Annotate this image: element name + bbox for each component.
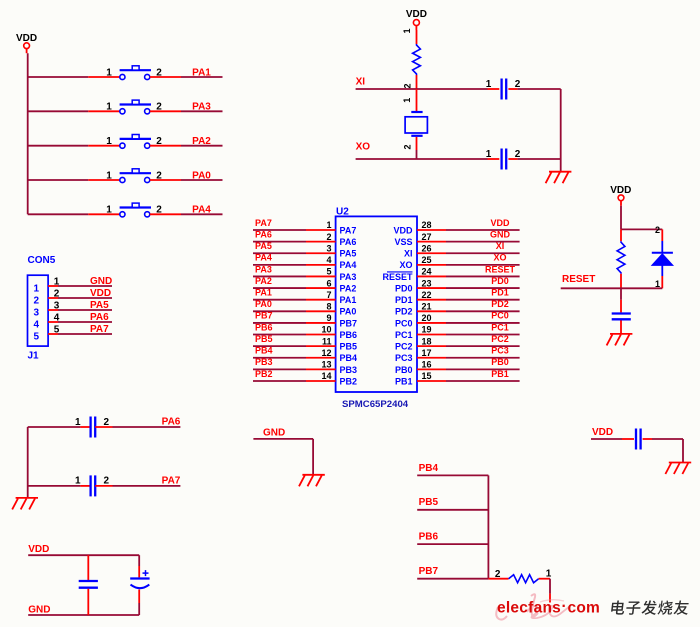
wire button row 4 right [181, 179, 223, 181]
capacitor C2 pin 2 [508, 158, 517, 160]
svg-text:GND: GND [263, 427, 285, 438]
svg-text:PB2: PB2 [255, 369, 273, 379]
wire button row 2 right [181, 110, 223, 112]
capacitor C7 pin 2 [95, 426, 112, 428]
svg-text:4: 4 [34, 320, 40, 331]
wire button row 3 left [28, 145, 89, 147]
svg-text:PB7: PB7 [419, 566, 439, 577]
pushbutton S4 [120, 169, 151, 183]
connector J1 body [28, 275, 49, 346]
U2 pin 4 [306, 264, 336, 266]
wire button row 4 left [28, 179, 89, 181]
diode D1 pin 2 [661, 229, 663, 241]
wire PA6 cap row left [28, 426, 81, 428]
wire U2 pin 26 net [446, 252, 520, 254]
U2 pin 22 [417, 299, 446, 301]
wire U2 pin 18 net [446, 345, 520, 347]
svg-text:SPMC65P2404: SPMC65P2404 [342, 399, 409, 410]
capacitor C3 pin 1 [87, 555, 89, 580]
pushbutton S2 pin 2 [150, 110, 181, 112]
svg-text:PD1: PD1 [395, 295, 413, 305]
svg-text:J1: J1 [28, 351, 40, 362]
svg-text:PC3: PC3 [395, 353, 413, 363]
svg-text:PA6: PA6 [162, 416, 181, 427]
U2 pin 10 [306, 334, 336, 336]
resistor R2 pin 1 [620, 274, 622, 289]
power port VDD (reset) [610, 185, 631, 206]
U2 pin 21 [417, 310, 446, 312]
svg-text:VDD: VDD [28, 544, 49, 555]
capacitor C7 [91, 417, 96, 438]
svg-text:PB4: PB4 [340, 353, 358, 363]
U2 pin 28 [417, 229, 446, 231]
svg-text:1: 1 [486, 79, 492, 90]
svg-text:2: 2 [495, 569, 501, 580]
pushbutton S2 pin 1 [88, 110, 119, 112]
wire U2 pin 11 net [253, 345, 306, 347]
svg-text:PA0: PA0 [340, 307, 357, 317]
pushbutton S5 [120, 203, 151, 217]
svg-text:GND: GND [490, 229, 511, 239]
svg-text:PB3: PB3 [255, 357, 273, 367]
svg-text:PA4: PA4 [340, 260, 357, 270]
svg-text:RESET: RESET [485, 264, 516, 274]
svg-text:GND: GND [90, 276, 112, 287]
svg-text:11: 11 [322, 336, 332, 346]
U2 pin 7 [306, 299, 336, 301]
wire rail corner to C4 [138, 555, 140, 566]
svg-text:17: 17 [422, 348, 432, 358]
wire button row 2 left [28, 110, 89, 112]
U2 pin 6 [306, 287, 336, 289]
diode D1 [652, 241, 673, 276]
pushbutton S1 pin 2 [150, 76, 181, 78]
svg-text:CON5: CON5 [28, 255, 56, 266]
U2 pin 23 [417, 287, 446, 289]
wire crystal to XO [416, 150, 418, 159]
svg-text:VDD: VDD [90, 288, 111, 299]
svg-text:PA5: PA5 [90, 300, 109, 311]
svg-text:2: 2 [104, 476, 110, 487]
svg-text:PB0: PB0 [491, 357, 509, 367]
svg-text:RESET: RESET [382, 272, 413, 282]
svg-text:1: 1 [106, 170, 112, 181]
svg-text:VSS: VSS [394, 237, 412, 247]
pushbutton S3 pin 2 [150, 145, 181, 147]
svg-text:XI: XI [356, 76, 366, 87]
svg-text:1: 1 [326, 220, 331, 230]
wire U2 pin 28 net [446, 229, 520, 231]
wire U2 pin 24 net [446, 275, 520, 277]
svg-text:PC2: PC2 [395, 342, 413, 352]
svg-text:PA5: PA5 [340, 249, 357, 259]
power port VDD (button bank) [16, 33, 37, 53]
capacitor C5 [612, 314, 631, 320]
wire U2 pin 13 net [253, 368, 306, 370]
svg-text:PC1: PC1 [491, 322, 509, 332]
wire U2 pin 22 net [446, 299, 520, 301]
wire VDD vertical bus [27, 53, 29, 214]
svg-text:1: 1 [106, 102, 112, 113]
svg-text:PB6: PB6 [340, 330, 358, 340]
ground (crystal) [546, 172, 572, 184]
svg-text:4: 4 [326, 255, 331, 265]
U2 pin 15 [417, 380, 446, 382]
resistor R1 pin 1 [416, 30, 418, 44]
svg-text:1: 1 [402, 28, 412, 33]
U2 pin 17 [417, 357, 446, 359]
svg-text:XI: XI [404, 249, 413, 259]
connector J1 pin 4 [48, 321, 58, 323]
svg-text:PA3: PA3 [192, 102, 211, 113]
wire button row 5 right [181, 213, 223, 215]
svg-text:XO: XO [399, 260, 412, 270]
svg-text:5: 5 [34, 332, 40, 343]
U2 pin 25 [417, 264, 446, 266]
capacitor C2 pin 1 [488, 158, 500, 160]
U2 pin 3 [306, 252, 336, 254]
diode D1 pin 1 [661, 276, 663, 288]
svg-text:7: 7 [326, 290, 331, 300]
svg-text:PB6: PB6 [419, 532, 439, 543]
U2 pin 26 [417, 252, 446, 254]
wire J1 pin 3 net [58, 309, 112, 311]
capacitor C6 pin 2 [643, 438, 652, 440]
capacitor C1 pin 2 [508, 88, 517, 90]
svg-text:2: 2 [34, 296, 40, 307]
svg-text:PA6: PA6 [90, 312, 109, 323]
wire J1 pin 4 net [58, 321, 112, 323]
U2 pin 16 [417, 368, 446, 370]
svg-text:PB0: PB0 [395, 365, 413, 375]
wire right vertical to ground [560, 89, 562, 172]
wire junction to capacitor [620, 288, 622, 300]
svg-text:PA7: PA7 [340, 225, 357, 235]
svg-text:1: 1 [546, 568, 552, 579]
svg-text:VDD: VDD [406, 9, 427, 20]
wire U2 pin 8 net [253, 310, 306, 312]
wire VDD to cap [591, 438, 622, 440]
crystal Y1 pin 1 [416, 89, 418, 111]
wire U2 pin 25 net [446, 264, 520, 266]
svg-text:PB5: PB5 [419, 497, 439, 508]
svg-text:PC0: PC0 [491, 311, 509, 321]
svg-text:PA1: PA1 [192, 67, 211, 78]
capacitor C8 pin 1 [80, 485, 90, 487]
svg-text:PA1: PA1 [340, 295, 357, 305]
U2 pin 2 [306, 241, 336, 243]
svg-text:2: 2 [104, 417, 110, 428]
pushbutton S1 pin 1 [88, 76, 119, 78]
svg-text:12: 12 [321, 348, 331, 358]
svg-text:PA5: PA5 [255, 241, 272, 251]
wire J1 pin 5 net [58, 333, 112, 335]
svg-text:PB1: PB1 [491, 369, 509, 379]
wire cap to ground corner [652, 439, 683, 462]
capacitor C4 pin + [138, 566, 140, 577]
capacitor C6 [636, 429, 641, 450]
svg-text:1: 1 [75, 476, 81, 487]
U2 pin 12 [306, 357, 336, 359]
wire J1 pin 2 net [58, 297, 112, 299]
wire GND net [253, 439, 313, 474]
svg-text:XI: XI [496, 241, 505, 251]
svg-text:3: 3 [34, 308, 40, 319]
wire VDD to junction [620, 206, 622, 230]
svg-text:10: 10 [321, 325, 331, 335]
wire U2 pin 6 net [253, 287, 306, 289]
wire U2 pin 20 net [446, 322, 520, 324]
wire VDD rail [28, 554, 139, 556]
ground (decoupling cap) [665, 463, 691, 475]
wire button row 1 left [28, 76, 89, 78]
wire button row 1 right [181, 76, 223, 78]
capacitor C1 pin 1 [488, 88, 500, 90]
capacitor C6 pin 1 [622, 438, 634, 440]
wire XO net [356, 158, 561, 160]
svg-text:6: 6 [326, 278, 331, 288]
svg-text:27: 27 [422, 232, 432, 242]
svg-text:8: 8 [326, 302, 331, 312]
svg-text:PD0: PD0 [395, 283, 413, 293]
svg-text:PB6: PB6 [255, 322, 273, 332]
svg-text:5: 5 [326, 267, 331, 277]
capacitor C5 pin 1 [620, 300, 622, 313]
svg-text:2: 2 [655, 225, 660, 235]
resistor R2 [617, 241, 625, 274]
wire XI net [356, 88, 561, 90]
svg-text:PD2: PD2 [395, 307, 413, 317]
connector J1 pin 5 [48, 333, 58, 335]
svg-text:16: 16 [422, 360, 432, 370]
wire PB4 net [417, 474, 488, 476]
IC U2 body [336, 216, 417, 392]
svg-text:21: 21 [422, 302, 432, 312]
svg-text:PD1: PD1 [491, 287, 509, 297]
svg-text:PB2: PB2 [340, 376, 358, 386]
svg-text:PA1: PA1 [255, 287, 272, 297]
wire U2 pin 10 net [253, 334, 306, 336]
wire junction to diode top [621, 228, 662, 230]
svg-text:26: 26 [422, 243, 432, 253]
wire PB6 net [417, 543, 488, 545]
wire U2 pin 3 net [253, 252, 306, 254]
wire R3 down [549, 579, 551, 594]
connector J1 pin 3 [48, 309, 58, 311]
svg-text:PA0: PA0 [255, 299, 272, 309]
wire R3 end stub [549, 594, 551, 603]
svg-text:PA2: PA2 [192, 136, 211, 147]
svg-text:1: 1 [106, 67, 112, 78]
pushbutton S5 pin 2 [150, 213, 181, 215]
wire U2 pin 17 net [446, 357, 520, 359]
resistor R3 pin 1 [539, 578, 550, 580]
watermark chinese 电子发烧友 [611, 600, 690, 614]
svg-text:PA7: PA7 [90, 324, 109, 335]
power port VDD (crystal) [406, 9, 427, 30]
pushbutton S4 pin 2 [150, 179, 181, 181]
svg-text:XO: XO [356, 141, 371, 152]
crystal Y1 [405, 112, 427, 136]
wire U2 pin 7 net [253, 299, 306, 301]
pushbutton S3 [120, 135, 151, 149]
U2 pin 9 [306, 322, 336, 324]
U2 pin 27 [417, 241, 446, 243]
svg-text:24: 24 [422, 267, 432, 277]
capacitor C8 pin 2 [95, 485, 112, 487]
wire U2 pin 23 net [446, 287, 520, 289]
wire U2 pin 2 net [253, 241, 306, 243]
svg-text:1: 1 [75, 417, 81, 428]
svg-text:15: 15 [422, 371, 432, 381]
wire J1 pin 1 net [58, 285, 112, 287]
capacitor C8 [91, 475, 96, 496]
capacitor C3 [79, 581, 98, 588]
capacitor C4 (electrolytic) [130, 570, 149, 588]
U2 pin 20 [417, 322, 446, 324]
connector J1 pin 1 [48, 285, 58, 287]
wire U2 pin 1 net [253, 229, 306, 231]
wire left vertical (PA6/PA7 caps) [27, 427, 29, 498]
svg-text:1: 1 [106, 136, 112, 147]
wire PB7 net [417, 578, 488, 580]
svg-text:2: 2 [403, 83, 413, 88]
svg-text:1: 1 [486, 149, 492, 160]
svg-text:PB7: PB7 [255, 311, 273, 321]
wire RESET net [561, 287, 663, 289]
resistor R3 pin 2 [488, 578, 508, 580]
svg-text:1: 1 [106, 205, 112, 216]
svg-text:14: 14 [321, 371, 331, 381]
wire button row 3 right [181, 145, 223, 147]
U2 pin 1 [306, 229, 336, 231]
ground (PA6/PA7 caps) [12, 498, 38, 510]
ground (center) [299, 475, 325, 487]
svg-text:PB7: PB7 [340, 318, 358, 328]
svg-text:PB4: PB4 [255, 346, 273, 356]
svg-text:20: 20 [422, 313, 432, 323]
resistor R1 [413, 44, 421, 75]
svg-text:XO: XO [493, 253, 506, 263]
svg-text:PA4: PA4 [192, 205, 211, 216]
svg-text:22: 22 [422, 290, 432, 300]
U2 pin 18 [417, 345, 446, 347]
pushbutton S5 pin 1 [88, 213, 119, 215]
capacitor C7 pin 1 [80, 426, 90, 428]
svg-text:VDD: VDD [393, 225, 413, 235]
wire PA6 cap row right [113, 426, 181, 428]
svg-text:RESET: RESET [562, 274, 595, 285]
svg-text:VDD: VDD [490, 218, 510, 228]
wire button row 5 left [28, 213, 89, 215]
capacitor C4 pin - [138, 590, 140, 604]
U2 pin 8 [306, 310, 336, 312]
wire GND rail [28, 614, 139, 616]
U2 pin 14 [306, 380, 336, 382]
svg-text:9: 9 [326, 313, 331, 323]
wire U2 pin 15 net [446, 380, 520, 382]
svg-text:VDD: VDD [592, 427, 613, 438]
capacitor C1 [502, 79, 507, 100]
resistor R2 pin 2 [620, 229, 622, 241]
svg-text:PC0: PC0 [395, 318, 413, 328]
wire U2 pin 5 net [253, 275, 306, 277]
wire PA7 cap row left [28, 485, 81, 487]
svg-text:PC1: PC1 [395, 330, 413, 340]
svg-text:2: 2 [326, 232, 331, 242]
wire U2 pin 27 net [446, 241, 520, 243]
wire U2 pin 19 net [446, 334, 520, 336]
svg-text:GND: GND [28, 604, 50, 615]
U2 pin 11 [306, 345, 336, 347]
wire U2 pin 21 net [446, 310, 520, 312]
U2 pin 5 [306, 275, 336, 277]
svg-text:2: 2 [515, 79, 521, 90]
U2 pin 24 [417, 275, 446, 277]
watermark scribble [496, 594, 569, 619]
wire PB5 net [417, 509, 488, 511]
svg-text:13: 13 [321, 360, 331, 370]
wire PB vertical bus [487, 475, 489, 578]
svg-text:2: 2 [515, 149, 521, 160]
svg-text:1: 1 [34, 284, 40, 295]
svg-text:PA4: PA4 [255, 253, 272, 263]
svg-text:1: 1 [402, 98, 412, 103]
svg-text:PA0: PA0 [192, 170, 211, 181]
pushbutton S2 [120, 100, 151, 114]
wire C4 to GND rail [138, 603, 140, 615]
svg-text:PD2: PD2 [491, 299, 509, 309]
wire U2 pin 9 net [253, 322, 306, 324]
svg-text:PA7: PA7 [162, 475, 181, 486]
capacitor C3 pin 2 [87, 589, 89, 615]
svg-text:PD0: PD0 [491, 276, 509, 286]
svg-text:PC3: PC3 [491, 346, 509, 356]
svg-text:3: 3 [326, 243, 331, 253]
connector J1 pin 2 [48, 297, 58, 299]
wire PA7 cap row right [113, 485, 181, 487]
svg-text:2: 2 [403, 144, 413, 149]
ground (reset) [607, 334, 633, 346]
pushbutton S3 pin 1 [88, 145, 119, 147]
crystal Y1 pin 2 [416, 137, 418, 150]
svg-text:28: 28 [422, 220, 432, 230]
svg-text:PA2: PA2 [340, 283, 357, 293]
svg-text:PA3: PA3 [340, 272, 357, 282]
pushbutton S4 pin 1 [88, 179, 119, 181]
wire U2 pin 16 net [446, 368, 520, 370]
resistor R3 [509, 575, 539, 583]
svg-text:PB3: PB3 [340, 365, 358, 375]
svg-text:PB5: PB5 [255, 334, 273, 344]
svg-text:PB5: PB5 [340, 342, 358, 352]
svg-text:PA6: PA6 [255, 229, 272, 239]
svg-text:PA6: PA6 [340, 237, 357, 247]
U2 pin 13 [306, 368, 336, 370]
svg-text:PC2: PC2 [491, 334, 509, 344]
svg-text:PB1: PB1 [395, 376, 413, 386]
svg-text:19: 19 [422, 325, 432, 335]
pushbutton S1 [120, 66, 151, 80]
resistor R1 pin 2 [416, 75, 418, 89]
svg-text:PB4: PB4 [419, 463, 439, 474]
U2 pin name RESET with overline [382, 272, 413, 282]
capacitor C5 pin 2 [620, 320, 622, 333]
wire U2 pin 4 net [253, 264, 306, 266]
wire U2 pin 12 net [253, 357, 306, 359]
svg-text:elecfans·com: elecfans·com [497, 598, 600, 617]
svg-text:PA2: PA2 [255, 276, 272, 286]
